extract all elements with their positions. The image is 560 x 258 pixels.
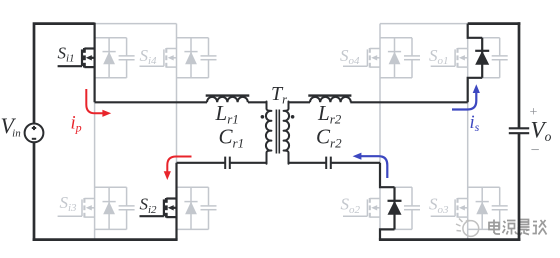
node rails of cell So1	[468, 38, 500, 78]
transistor So2 (gray) (MOSFET symbol)	[343, 198, 380, 218]
diode of Si3 (body diode)	[103, 187, 116, 229]
wire gray input right leg Si4 drain-source chain	[176, 24, 178, 163]
capacitor of Si2 (parallel snubber cap)	[201, 187, 217, 229]
capacitor of Si3 (parallel snubber cap)	[119, 187, 135, 229]
wire transformer secondary top to Lr2	[289, 101, 311, 103]
watermark logo (cartoon mark)	[456, 219, 479, 237]
transformer Tr polarity dot primary	[261, 115, 265, 119]
wire gray output top rail (So4 leg to So1 leg)	[380, 23, 468, 25]
wire So2 diode branch jogs	[380, 163, 395, 240]
node rails of cell Si3	[95, 187, 127, 229]
capacitor of So1 (parallel snubber cap)	[492, 38, 508, 78]
transistor Si1 (active, black) (MOSFET symbol)	[58, 48, 95, 68]
node rails of cell So3	[468, 187, 500, 229]
diode of So2 (conducting, black) (body diode)	[388, 187, 402, 229]
wire node A: Si1 source to Lr1	[95, 101, 207, 103]
node rails of cell So4	[380, 38, 412, 78]
capacitor of Si1 (parallel snubber cap)	[119, 38, 135, 78]
wire gray So2 drain-source line	[379, 187, 381, 229]
wire gray output left leg So4 chain	[379, 24, 381, 163]
inductor Lr2	[308, 96, 351, 103]
current arrow into Si2 (red)	[167, 157, 191, 172]
source Vin (DC voltage source)	[25, 123, 44, 142]
diode of Si2 (body diode)	[184, 187, 197, 229]
diode of So3 (body diode)	[476, 187, 489, 229]
diode of Si4 (body diode)	[184, 38, 197, 78]
diode of So4 (body diode)	[388, 38, 401, 78]
watermark text 电源晨谈 (drawn strokes)	[489, 220, 547, 236]
svg-text:−: −	[531, 142, 540, 159]
capacitor Cr2	[326, 157, 331, 169]
transistor So1 (gray) (MOSFET symbol)	[431, 48, 468, 68]
capacitor of Si4 (parallel snubber cap)	[201, 38, 217, 78]
wire gray input top rail (Si1 leg to Si4 leg)	[95, 23, 177, 25]
diode of So1 (conducting, black) (body diode)	[475, 38, 489, 78]
capacitor of So4 (parallel snubber cap)	[404, 38, 420, 78]
capacitor Co (output cap)	[509, 128, 529, 133]
current arrow ip (red, primary)	[86, 89, 103, 113]
wire Si2 leg vertical down to bottom rail	[175, 163, 177, 240]
transistor Si3 (gray) (MOSFET symbol)	[58, 198, 95, 218]
transistor So4 (gray) (MOSFET symbol)	[343, 48, 380, 68]
transformer Tr polarity dot secondary	[291, 115, 295, 119]
wire transformer secondary bottom to Cr2	[289, 162, 327, 164]
wire top-left rail Vin+ to Si1 drain	[34, 24, 95, 124]
transformer Tr core	[276, 110, 279, 154]
wire input bottom rail	[33, 238, 178, 241]
wire Cr1 to transformer primary bottom	[230, 162, 267, 164]
capacitor of So2 (parallel snubber cap)	[404, 187, 420, 229]
wire output top rail So1 to Vo+	[468, 22, 521, 25]
svg-text:+: +	[530, 105, 538, 120]
capacitor of So3 (parallel snubber cap)	[492, 187, 508, 229]
transformer Tr primary winding	[266, 102, 271, 164]
wire gray output right leg down through So3	[467, 102, 469, 239]
wire Cr2 to So2 leg node	[331, 162, 380, 164]
diode of Si1 (body diode)	[103, 38, 116, 78]
transistor So3 (gray) (MOSFET symbol)	[431, 198, 468, 218]
transformer Tr secondary winding	[284, 102, 289, 164]
transistor Si2 (active, black) (MOSFET symbol)	[140, 198, 177, 218]
node rails of cell Si1	[95, 38, 127, 78]
node rails of cell So2	[380, 187, 412, 229]
node rails of cell Si2	[177, 187, 209, 229]
node rails of cell Si4	[177, 38, 209, 78]
wire gray input left leg down to Si3 and bottom rail	[94, 102, 96, 239]
wire So1 diode branch jogs	[468, 24, 483, 103]
current arrow out of So2 (blue)	[361, 156, 388, 178]
wire gray So1 drain-source line	[467, 38, 469, 78]
wire Si1 leg vertical (drain-source line)	[93, 23, 95, 103]
inductor Lr1	[206, 96, 250, 103]
transistor Si4 (gray) (MOSFET symbol)	[140, 48, 177, 68]
wire Si2 drain node to Cr1	[177, 162, 226, 164]
current arrow is (blue, secondary)	[452, 93, 476, 110]
wire Lr1 to transformer primary top	[248, 101, 267, 103]
wire Lr2 to So1 leg node	[350, 101, 467, 103]
capacitor Cr1	[225, 157, 230, 169]
wire right rail above Vo cap	[518, 22, 521, 128]
wire output bottom rail	[379, 238, 521, 241]
wire left rail Vin- to bottom rail	[33, 142, 36, 241]
wire right rail below Vo cap	[518, 133, 521, 241]
